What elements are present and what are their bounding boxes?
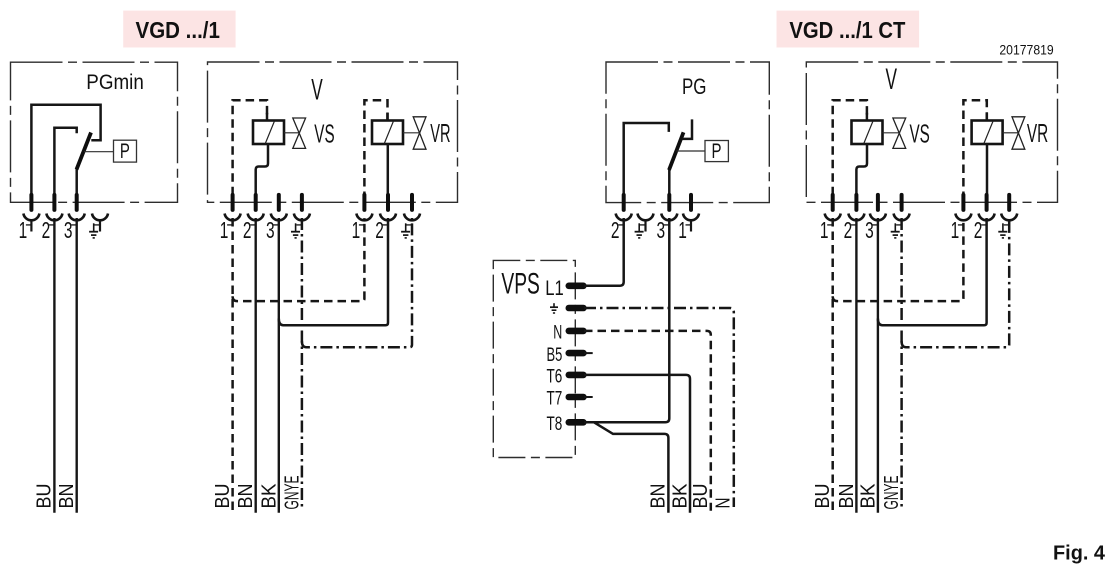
- terminal pin 3 VS group (left V): [277, 195, 281, 210]
- svg-text:2: 2: [844, 217, 853, 243]
- wire BU (PGmin pin2 down): [53, 218, 55, 513]
- wire BU branch to VR pin1 (left V, dashed): [233, 218, 365, 301]
- svg-text:N: N: [553, 322, 562, 344]
- ground symbol (PG): [638, 223, 640, 231]
- svg-text:P: P: [712, 140, 722, 163]
- terminal pin 1 VR group (left V): [362, 195, 366, 210]
- ground stub wire (PG): [644, 221, 646, 232]
- pressure element P (PG): [705, 141, 728, 162]
- svg-text:PG: PG: [682, 74, 707, 99]
- svg-text:GNYE: GNYE: [881, 476, 903, 510]
- valve stem VS (right): [883, 132, 900, 134]
- wire BU dashed (left V pin1 down): [231, 218, 234, 511]
- switch blade (PGmin pressure switch): [77, 133, 92, 170]
- terminal bar T7 (VPS): [569, 394, 584, 401]
- terminal pin 1 VR group (right V): [961, 195, 965, 210]
- svg-text:2: 2: [974, 217, 983, 243]
- svg-text:2: 2: [611, 217, 620, 243]
- wire BU branch to VR pin1 (right V, dashed): [833, 218, 964, 301]
- svg-text:BN: BN: [648, 484, 670, 509]
- wire BU dashed (right V pin1 down): [831, 218, 834, 511]
- svg-text:V: V: [311, 73, 323, 106]
- svg-text:1: 1: [19, 217, 28, 243]
- svg-text:PGmin: PGmin: [86, 71, 144, 94]
- wire VS coil to pin 2 (right): [856, 143, 867, 194]
- svg-text:1: 1: [352, 217, 361, 243]
- svg-text:3: 3: [865, 217, 874, 243]
- wire stub into VR coil top (left): [386, 113, 389, 121]
- wire BK (left V pin3 down): [278, 218, 280, 513]
- valve VR symbol (right): [1012, 117, 1025, 149]
- svg-text:2: 2: [42, 217, 51, 243]
- enclosure PGmin (dash-dot box): [11, 62, 178, 202]
- wire pin1 dashed feed to VR coil (right): [963, 100, 986, 194]
- svg-text:BN: BN: [56, 484, 78, 509]
- wire BK branch to VR pin2 (right V): [878, 218, 987, 325]
- wire T8 to PG pin 3: [584, 218, 669, 422]
- terminal pin 1 VS group (right V): [831, 195, 835, 210]
- wire BN (left V pin2 down): [254, 218, 256, 513]
- ground symbol (PGmin): [93, 223, 95, 231]
- ground symbol VR group (left V): [405, 223, 407, 231]
- svg-text:BK: BK: [259, 483, 281, 509]
- terminal bar T8 (VPS): [569, 419, 584, 426]
- svg-text:3: 3: [657, 217, 666, 243]
- wire VS coil to pin 2 (left): [256, 143, 268, 194]
- wire L1 to PG pin 2: [584, 218, 624, 286]
- wire pin1 dashed feed to VS coil (left): [233, 100, 267, 194]
- solenoid coil VS (left): [253, 121, 284, 145]
- pin 1 stub wire (PG): [690, 221, 692, 232]
- terminal pin 2 (PG): [622, 195, 626, 210]
- ground terminal VS group (left V): [300, 195, 304, 210]
- svg-text:Fig. 4: Fig. 4: [1053, 543, 1106, 565]
- svg-text:T7: T7: [547, 388, 563, 410]
- wire stub into VS coil top (right): [866, 113, 869, 121]
- svg-text:VS: VS: [910, 119, 930, 149]
- svg-text:BK: BK: [669, 483, 691, 509]
- pin1 stub wire (PGmin): [30, 221, 32, 232]
- terminal pin 3 VS group (right V): [876, 195, 880, 210]
- svg-text:VGD .../1 CT: VGD .../1 CT: [789, 17, 906, 43]
- ground terminal socket (PG): [638, 214, 654, 221]
- wire VR coil to pin 2 (left): [387, 143, 390, 194]
- terminal pin 1 (PGmin): [29, 195, 33, 210]
- NO contact hook (PG): [682, 119, 692, 138]
- terminal pin 1 VS group (left V): [231, 195, 235, 210]
- svg-text:L1: L1: [545, 276, 564, 300]
- svg-text:3: 3: [64, 217, 73, 243]
- terminal bar L1 (VPS): [569, 282, 584, 289]
- valve VR symbol (left): [413, 117, 426, 149]
- svg-text:1: 1: [820, 217, 829, 243]
- terminal pin 2 VS group (right V): [854, 195, 858, 210]
- valve stem VR (right): [1003, 132, 1019, 134]
- svg-text:VR: VR: [430, 118, 450, 148]
- wire stub into VR coil top (right): [986, 113, 989, 121]
- wire BK branch to VR pin2 (left V): [279, 218, 388, 325]
- svg-text:3: 3: [266, 217, 275, 243]
- ground terminal VR group (right V): [1007, 195, 1011, 210]
- terminal pin 2 VR group (right V): [985, 195, 989, 210]
- leader line to P element (PGmin): [84, 151, 114, 153]
- svg-text:VR: VR: [1027, 118, 1048, 148]
- ground symbol (VPS earth terminal): [553, 303, 555, 307]
- svg-text:BK: BK: [858, 483, 880, 509]
- svg-text:2: 2: [375, 217, 384, 243]
- ground symbol VS group (right V): [894, 223, 896, 231]
- terminal pin 3 (PG): [667, 195, 671, 210]
- svg-text:BU: BU: [34, 484, 56, 509]
- valve stem VS (left): [284, 132, 299, 134]
- wire pin2 to NC contact (PG): [624, 123, 669, 194]
- terminal pin 3 (PGmin): [75, 195, 79, 210]
- wire GNYE branch to VR ground (right V, dash-dot): [902, 218, 1010, 347]
- highlight label VGD .../1: [123, 11, 235, 48]
- wire VR coil to pin 2 (right): [986, 143, 989, 194]
- valve VS symbol (left): [293, 118, 306, 148]
- wire pin1 dashed feed to VS coil (right): [833, 100, 867, 194]
- ground terminal socket (PGmin): [92, 214, 108, 221]
- wire BN (right V pin2 down): [855, 218, 857, 513]
- svg-text:VPS: VPS: [501, 267, 540, 300]
- highlight label VGD .../1 CT: [777, 11, 920, 48]
- wire pin1 dashed feed to VR coil (left): [364, 100, 387, 194]
- wire GNYE dash-dot (left V ground down): [301, 218, 304, 507]
- stub wire B5 (VPS): [584, 352, 593, 354]
- svg-text:BU: BU: [212, 484, 234, 509]
- wire pin3 to switch blade (PG): [668, 170, 671, 195]
- wire pin2 to NC contact (PGmin): [54, 128, 76, 194]
- svg-text:1: 1: [220, 217, 229, 243]
- enclosure PG (dash-dot box): [606, 62, 769, 203]
- enclosure V right (dash-dot box): [806, 62, 1057, 202]
- terminal pin 2 VS group (left V): [254, 195, 258, 210]
- svg-text:VGD .../1: VGD .../1: [136, 17, 220, 43]
- enclosure VPS (dash-dot box): [493, 260, 575, 457]
- svg-text:20177819: 20177819: [999, 43, 1053, 58]
- svg-text:GNYE: GNYE: [282, 476, 304, 510]
- wire GNYE branch to VR ground (left V, dash-dot): [302, 218, 412, 347]
- terminal bar N (VPS): [569, 328, 584, 335]
- svg-text:B5: B5: [547, 344, 563, 366]
- wire T6 (VPS to bottom, label BK): [584, 375, 690, 513]
- solenoid coil VR (left): [372, 121, 403, 145]
- svg-text:1: 1: [951, 217, 960, 243]
- terminal pin 1 (PG): [689, 195, 693, 210]
- wire GNYE dash-dot (right V ground down): [900, 218, 903, 507]
- switch blade (PG pressure switch): [669, 132, 684, 170]
- ground terminal VR group (left V): [410, 195, 414, 210]
- svg-text:2: 2: [243, 217, 252, 243]
- valve stem VR (left): [403, 132, 420, 134]
- wire T8 branch to bottom (label BN): [594, 422, 668, 513]
- svg-text:V: V: [886, 63, 898, 96]
- enclosure V left (dash-dot box): [208, 62, 458, 202]
- solenoid coil VR (right): [972, 121, 1003, 145]
- solenoid coil VS (right): [852, 121, 883, 145]
- svg-text:P: P: [120, 140, 130, 163]
- svg-text:BU: BU: [812, 484, 834, 509]
- stub wire T7 (VPS): [584, 396, 593, 398]
- svg-text:1: 1: [678, 217, 687, 243]
- svg-text:BU: BU: [690, 484, 712, 509]
- terminal bar B5 (VPS): [569, 350, 584, 357]
- svg-text:N: N: [712, 498, 734, 509]
- svg-text:BN: BN: [235, 484, 257, 509]
- svg-text:T8: T8: [547, 413, 563, 435]
- svg-text:T6: T6: [547, 366, 563, 388]
- wire earth dash-dot (VPS to bottom, label N): [584, 308, 734, 507]
- leader line to P element (PG): [677, 150, 706, 152]
- ground symbol VS group (left V): [295, 223, 297, 231]
- wire stub into VS coil top (left): [266, 113, 269, 121]
- svg-text:BN: BN: [836, 484, 858, 509]
- ground symbol VR group (right V): [1002, 223, 1004, 231]
- wire pin3 to switch blade (PGmin): [75, 169, 78, 194]
- ground terminal VS group (right V): [900, 195, 904, 210]
- terminal bar earth (VPS): [569, 305, 584, 312]
- valve VS symbol (right): [893, 118, 906, 148]
- wire N dashed (VPS to bottom, label BU): [584, 331, 711, 511]
- wire BN (PGmin pin3 down): [75, 218, 77, 513]
- wire BK (right V pin3 down): [877, 218, 879, 513]
- wire pin1 to NO contact hook (PGmin): [31, 105, 100, 194]
- svg-text:VS: VS: [314, 119, 334, 149]
- pressure element P (PGmin): [114, 140, 137, 162]
- ground stub wire (PGmin): [99, 221, 101, 232]
- terminal pin 2 (PGmin): [52, 195, 56, 210]
- terminal pin 2 VR group (left V): [386, 195, 390, 210]
- terminal bar T6 (VPS): [569, 372, 584, 379]
